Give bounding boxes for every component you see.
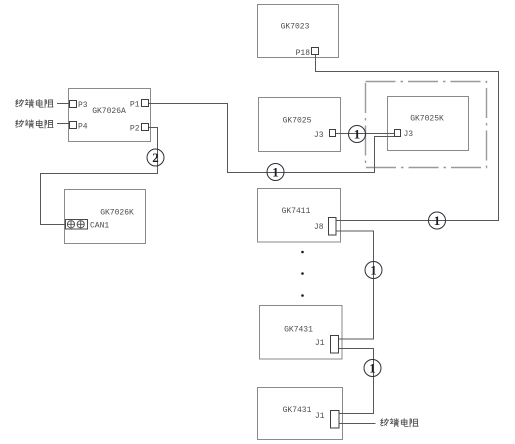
- circled 1 between J1 and J1: [364, 360, 381, 377]
- svg-text:GK7431: GK7431: [283, 406, 312, 415]
- port J3 of GK7025K: [395, 130, 414, 140]
- port P3: [70, 101, 88, 111]
- svg-text:GK7023: GK7023: [281, 23, 310, 32]
- connector CAN1 of GK7026K: [66, 220, 110, 231]
- circled 2 below P2: [147, 149, 164, 166]
- wire P18 to J8 (right side bus): [316, 55, 499, 221]
- svg-text:J1: J1: [315, 412, 325, 421]
- svg-text:P4: P4: [78, 123, 88, 132]
- svg-text:1: 1: [434, 213, 441, 228]
- svg-text:GK7026A: GK7026A: [92, 107, 126, 116]
- box GK7026A: [69, 89, 151, 142]
- circled 1 between J3 and J3: [349, 126, 366, 143]
- connector J8 of GK7411: [314, 218, 336, 236]
- wire P2 to CAN1: [41, 128, 158, 225]
- svg-text:P2: P2: [130, 125, 140, 134]
- dash to P4: [57, 123, 69, 125]
- connector J1 of GK7431 upper: [315, 336, 339, 354]
- dash to P3: [57, 103, 69, 105]
- svg-text:1: 1: [370, 263, 377, 278]
- box GK7431 upper: [260, 306, 343, 360]
- port J3 of GK7025: [314, 130, 336, 141]
- svg-text:2: 2: [152, 150, 159, 165]
- svg-text:J1: J1: [315, 339, 325, 348]
- box GK7023: [258, 5, 339, 58]
- ellipsis dots between GK7411 and GK7431: [301, 251, 304, 297]
- box GK7431 lower: [258, 388, 343, 440]
- svg-text:1: 1: [272, 165, 279, 180]
- wire P1 to GK7025K J3 (lower bus): [149, 104, 395, 173]
- svg-text:P18: P18: [296, 49, 311, 58]
- label terminal-resistor top-left 2: [16, 120, 54, 128]
- svg-text:GK7431: GK7431: [284, 326, 313, 335]
- svg-text:P3: P3: [78, 101, 88, 110]
- svg-text:CAN1: CAN1: [90, 222, 109, 231]
- wire J1 lower to terminal resistor label: [339, 423, 376, 425]
- svg-text:J3: J3: [314, 131, 324, 140]
- svg-text:P1: P1: [130, 101, 140, 110]
- svg-text:GK7411: GK7411: [282, 207, 311, 216]
- connector J1 of GK7431 lower: [315, 411, 339, 429]
- port P4: [70, 122, 88, 132]
- box GK7025K: [388, 97, 469, 151]
- svg-text:GK7026K: GK7026K: [100, 209, 134, 218]
- svg-text:J3: J3: [404, 130, 414, 139]
- label terminal-resistor (zhongduan dianzu) top-left 1: [16, 99, 54, 107]
- dash-dot enclosure around GK7025K: [366, 82, 487, 168]
- svg-text:1: 1: [354, 127, 361, 142]
- wire GK7025 J3 to GK7025K J3: [336, 133, 395, 135]
- svg-text:GK7025: GK7025: [283, 117, 312, 126]
- circled 1 on lower bus: [267, 164, 284, 181]
- port P1: [130, 100, 149, 110]
- box GK7411: [258, 189, 341, 243]
- circled 1 between J8 and J1: [365, 262, 382, 279]
- wire J1 upper to J1 lower: [339, 349, 374, 414]
- box GK7025: [259, 98, 341, 152]
- box GK7026K: [65, 190, 146, 244]
- port P2: [130, 124, 149, 134]
- label terminal-resistor bottom-right: [381, 418, 419, 426]
- svg-text:GK7025K: GK7025K: [410, 115, 444, 124]
- wire J8 to J1 upper: [336, 231, 374, 339]
- svg-text:J8: J8: [314, 223, 324, 232]
- svg-text:1: 1: [369, 361, 376, 376]
- circled 1 on right bus: [429, 212, 446, 229]
- port P18: [296, 48, 319, 59]
